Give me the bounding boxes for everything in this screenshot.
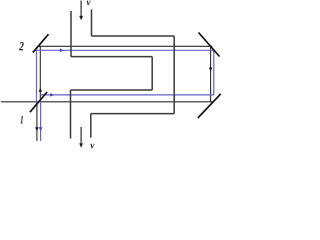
mirror top right [199,33,220,57]
label 1 (beam splitter) [20,116,23,123]
label v (bottom) [90,144,94,149]
wire black vertical ray between mirror 2 and splitter 1 [39,46,41,100]
wire blue right vertical [213,50,215,95]
wire blue top ray [35,49,215,51]
tube wall: outer bottom [91,113,174,115]
tube wall: island right [151,57,153,90]
tube wall: island top [71,56,152,58]
wire input black ray (bottom arm) [1,101,213,103]
wire black up arrowhead near splitter [39,88,43,92]
beam splitter 1 (bottom left) [30,92,47,112]
wire blue bottom ray [40,94,214,96]
water flow arrow bottom (v) [80,127,82,145]
wire blue vertical between mirror 2 and splitter [36,50,38,104]
wire right black vertical ray [210,46,212,102]
tube wall: island bottom [71,89,153,91]
label 2 (mirror) [19,42,24,50]
wire blue exit ray below splitter [40,100,42,141]
water flow arrow top (v) [80,1,82,18]
mirror bottom right [198,94,221,118]
mirror 2 (top left) [33,34,49,52]
tube wall: outer right [173,36,175,114]
tube wall: outer top [92,35,175,37]
wire blue exit arrowhead down [39,127,43,131]
wire top black ray [38,45,212,47]
wire black ray arrowhead down (right side) [209,68,213,72]
label v (top) [87,1,91,6]
wire black exit arrowhead down [35,127,39,131]
tube wall: outlet pipe left wall [70,90,72,139]
wire blue top ray arrowhead right [60,49,64,53]
tube wall: inlet pipe left wall + top arm end wall [70,11,72,57]
tube wall: inlet pipe right wall [91,9,93,36]
wire blue bottom ray arrowhead right [50,93,54,97]
wire black exit ray below splitter [36,104,38,141]
tube wall: outlet pipe right wall [90,114,92,138]
